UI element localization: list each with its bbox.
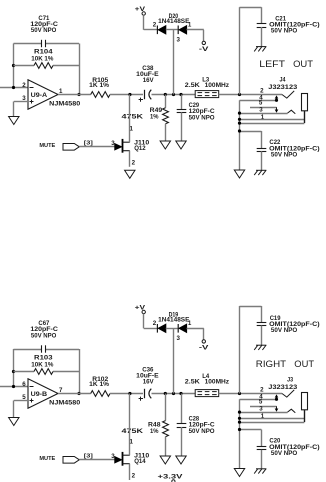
node MUTE flag <box>63 144 79 151</box>
svg-text:10K 1%: 10K 1% <box>31 361 53 368</box>
svg-text:2: 2 <box>260 386 264 393</box>
jack J4 body <box>302 94 308 124</box>
svg-text:50V NPO: 50V NPO <box>271 28 297 35</box>
pin 2 (jack tip) <box>260 87 264 94</box>
pin 3 (non-inverting input) <box>22 95 26 102</box>
node jack input junction <box>238 392 241 395</box>
capacitor C38 10uF-E 16V (electrolytic) <box>136 65 159 102</box>
svg-text:RIGHT: RIGHT <box>256 359 286 370</box>
inductor L4 2.5K 100MHz (ferrite bead) <box>185 373 229 397</box>
svg-text:1%: 1% <box>150 114 159 121</box>
svg-text:100MHz: 100MHz <box>205 379 230 386</box>
ground (op-amp + input) <box>9 117 19 125</box>
svg-text:6: 6 <box>22 381 26 388</box>
wire inverting input net R <box>0 386 28 388</box>
pin 1 (drain Q12) <box>130 126 134 133</box>
ground (R48) <box>160 456 170 464</box>
svg-text:NJM4580: NJM4580 <box>49 400 81 407</box>
pin 2 (inverting input) <box>22 82 26 89</box>
node MUTE flag <box>63 457 79 464</box>
resistor R48 475K 1% (shunt) <box>122 394 169 457</box>
svg-text:1: 1 <box>188 21 192 28</box>
resistor R104 10K 1% (feedback) <box>14 49 80 69</box>
wire Q14 source <box>129 464 131 480</box>
svg-text:+V: +V <box>135 305 146 312</box>
jack J3 body <box>302 393 308 423</box>
node shunt junctions <box>164 93 183 96</box>
wire +V to diode <box>144 15 158 30</box>
svg-text:U9-B: U9-B <box>31 391 48 398</box>
wire sleeve return <box>238 122 304 125</box>
svg-text:1: 1 <box>188 320 192 327</box>
wire feedback right vertical <box>79 44 81 95</box>
wire cap to bead <box>152 94 196 96</box>
svg-text:[3]: [3] <box>84 454 93 460</box>
svg-text:J323123: J323123 <box>268 384 297 391</box>
diode D19 1N4148SE <box>153 312 204 342</box>
node output junction <box>77 392 80 395</box>
svg-text:-V: -V <box>199 345 210 352</box>
wire Q12 drain <box>129 95 131 143</box>
wire pin4 to sleeve net <box>239 100 241 170</box>
text [3] <box>84 141 93 147</box>
capacitor C19 OMIT(120pF-C) 50V NPO <box>257 315 320 345</box>
pin 1 (jack sleeve) <box>238 413 304 420</box>
pin 7 (output) <box>59 387 63 394</box>
svg-text:50V NPO: 50V NPO <box>271 450 297 457</box>
pin 5 (jack ring switch) <box>250 100 278 113</box>
wire bead to jack <box>219 393 282 395</box>
svg-text:[3]: [3] <box>84 141 93 147</box>
svg-text:50V NPO: 50V NPO <box>31 27 57 34</box>
svg-text:3: 3 <box>177 36 181 43</box>
wire pin4 to sleeve net <box>239 399 241 468</box>
wire sleeve return <box>238 421 304 424</box>
node +3.3V <box>158 474 184 482</box>
node shunt junctions <box>164 392 183 395</box>
terminal -V <box>199 340 210 352</box>
pin 1 (drain Q14) <box>130 439 134 446</box>
svg-text:+V: +V <box>135 6 146 13</box>
svg-text:MUTE: MUTE <box>39 456 55 462</box>
capacitor C20 OMIT(120pF-C) 50V NPO <box>238 428 320 469</box>
connector J3 J323123 <box>268 376 297 391</box>
svg-text:1: 1 <box>130 439 134 446</box>
svg-text:50V NPO: 50V NPO <box>189 115 215 122</box>
svg-text:2: 2 <box>132 160 136 167</box>
wire inverting input net L <box>0 87 28 89</box>
svg-text:-V: -V <box>199 46 210 53</box>
node feedback junction <box>12 370 15 388</box>
wire feedback right vertical <box>79 349 81 394</box>
svg-text:10K 1%: 10K 1% <box>31 55 53 62</box>
svg-text:J323123: J323123 <box>268 84 297 91</box>
svg-text:1K 1%: 1K 1% <box>89 82 109 89</box>
wire C21 loop <box>240 7 262 94</box>
pin 1 (jack sleeve) <box>238 114 304 121</box>
svg-text:MUTE: MUTE <box>39 143 55 149</box>
text LEFT OUT <box>259 59 313 70</box>
pin 3 (jack ring) <box>238 405 295 413</box>
capacitor C67 (feedback) <box>14 320 80 353</box>
svg-text:Q14: Q14 <box>134 458 146 465</box>
wire jack tip contact <box>282 91 294 98</box>
terminal +V <box>135 6 146 15</box>
wire Q12 source <box>129 151 131 167</box>
pin 2 (jack tip) <box>260 386 264 393</box>
ground (jack sleeve) <box>234 170 244 178</box>
wire op-amp output <box>58 94 91 96</box>
wire diode pin 3 stub <box>173 30 175 95</box>
svg-text:OUT: OUT <box>293 59 313 70</box>
svg-text:+3.3V: +3.3V <box>158 474 184 481</box>
svg-text:J4: J4 <box>280 77 286 84</box>
op-amp U9-B NJM4580 <box>28 379 81 409</box>
svg-text:7: 7 <box>59 387 63 394</box>
svg-text:1K 1%: 1K 1% <box>89 381 109 388</box>
svg-text:J3: J3 <box>287 376 293 383</box>
inductor L3 2.5K 100MHz (ferrite bead) <box>185 76 229 97</box>
wire non-inverting input to ground <box>14 102 29 117</box>
op-amp U9-A NJM4580 <box>28 80 81 110</box>
wire +V to diode <box>144 314 158 329</box>
wire feedback left vertical <box>13 349 15 387</box>
wire bead to jack <box>219 94 282 96</box>
capacitor C22 OMIT(120pF-C) 50V NPO <box>238 129 320 170</box>
pin 1 (output) <box>59 88 63 95</box>
capacitor C36 10uF-E 16V (electrolytic) <box>136 367 159 401</box>
svg-text:1: 1 <box>130 126 134 133</box>
svg-text:16V: 16V <box>143 379 155 386</box>
capacitor C21 OMIT(120pF-C) 50V NPO <box>257 16 320 47</box>
wire non-inverting input to ground <box>14 401 29 418</box>
ground (jack sleeve) <box>234 469 244 477</box>
svg-text:475K: 475K <box>122 114 144 121</box>
ground (C28) <box>176 456 186 464</box>
capacitor C28 120pF-C 50V NPO (shunt) <box>177 394 215 457</box>
resistor R103 10K 1% (feedback) <box>14 355 80 375</box>
svg-text:2.5K: 2.5K <box>185 82 200 89</box>
svg-text:2: 2 <box>153 320 157 327</box>
ground (C19 chassis) <box>254 345 266 350</box>
wire cap to bead <box>152 393 196 395</box>
svg-text:2: 2 <box>22 82 26 89</box>
svg-text:1N4148SE: 1N4148SE <box>158 317 189 324</box>
svg-text:2: 2 <box>260 87 264 94</box>
svg-text:50V NPO: 50V NPO <box>271 151 297 158</box>
svg-text:OUT: OUT <box>294 359 314 370</box>
transistor Q14 J110 JFET <box>115 452 150 466</box>
wire diode to -V <box>203 328 205 339</box>
ground (Q12 source) <box>125 170 135 178</box>
wire mute gate <box>79 146 114 148</box>
wire diode to -V <box>203 30 205 41</box>
pin 3 (gate Q14) <box>111 453 115 460</box>
pin 4 (jack tip switch) <box>240 394 279 401</box>
ground (C22 chassis) <box>254 170 266 175</box>
wire to output cap <box>110 94 143 96</box>
svg-text:100MHz: 100MHz <box>205 82 230 89</box>
wire jack tip contact <box>282 390 294 397</box>
pin 5 (jack ring switch) <box>250 399 278 412</box>
wire feedback left vertical <box>13 44 15 88</box>
svg-text:3: 3 <box>259 405 263 412</box>
pin 4 (jack tip switch) <box>240 95 279 102</box>
svg-text:50V NPO: 50V NPO <box>189 428 215 435</box>
svg-text:1%: 1% <box>150 428 159 435</box>
node output junction <box>77 93 80 96</box>
pin 6 (inverting input) <box>22 381 26 388</box>
svg-text:LEFT: LEFT <box>259 59 285 70</box>
pin 5 (non-inverting input) <box>22 394 26 401</box>
text MUTE <box>39 456 55 462</box>
svg-text:3: 3 <box>177 335 181 342</box>
svg-text:2.5K: 2.5K <box>185 379 200 386</box>
terminal -V <box>199 41 210 53</box>
svg-text:2: 2 <box>153 21 157 28</box>
svg-text:1: 1 <box>59 88 63 95</box>
svg-text:16V: 16V <box>143 77 155 84</box>
diode D20 1N4148SE <box>153 13 204 43</box>
text MUTE <box>39 143 55 149</box>
svg-text:475K: 475K <box>122 428 144 435</box>
text RIGHT OUT <box>256 359 314 370</box>
wire op-amp output <box>58 393 91 395</box>
capacitor C29 120pF-C 50V NPO (shunt) <box>177 95 215 142</box>
text [3] <box>84 454 93 460</box>
svg-text:U9-A: U9-A <box>31 92 48 99</box>
resistor R105 1K 1% <box>89 77 110 98</box>
svg-text:50V NPO: 50V NPO <box>271 327 297 334</box>
svg-text:2: 2 <box>132 473 136 480</box>
wire mute gate <box>79 459 114 461</box>
svg-text:Q12: Q12 <box>134 145 146 152</box>
ground (C21 chassis) <box>254 47 266 52</box>
wire C19 loop <box>240 306 262 394</box>
resistor R49 475K 1% (shunt) <box>122 95 169 142</box>
wire to output cap <box>110 393 143 395</box>
pin 3 (gate Q12) <box>111 140 115 147</box>
resistor R102 1K 1% <box>89 376 110 397</box>
pin 2 (source Q12) <box>132 160 136 167</box>
ground (C20 chassis) <box>254 469 266 474</box>
node Q14 drain junction <box>128 392 131 395</box>
node Q12 drain junction <box>128 93 131 96</box>
pin 2 (source Q14) <box>132 473 136 480</box>
ground (op-amp + input) <box>9 418 19 426</box>
svg-text:NJM4580: NJM4580 <box>49 101 81 108</box>
transistor Q12 J110 JFET <box>115 139 150 153</box>
ground (R49) <box>160 141 170 149</box>
wire Q14 drain <box>129 394 131 456</box>
svg-text:3: 3 <box>259 106 263 113</box>
wire diode pin 3 stub <box>173 328 175 393</box>
capacitor C71 (feedback) <box>14 15 80 47</box>
connector J4 J323123 <box>268 77 297 92</box>
svg-text:1N4148SE: 1N4148SE <box>158 18 189 25</box>
node feedback junction <box>12 64 15 89</box>
pin 3 (jack ring) <box>238 106 295 114</box>
terminal +V <box>135 305 146 314</box>
svg-text:50V NPO: 50V NPO <box>31 332 57 339</box>
ground (C29) <box>176 141 186 149</box>
node jack input junction <box>238 93 241 96</box>
